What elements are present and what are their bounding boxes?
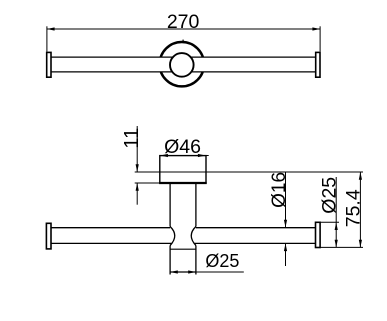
left end cap (front)	[46, 223, 51, 249]
rod bottom line (front) left segment	[51, 242, 172, 244]
svg-text:Ø25: Ø25	[319, 177, 341, 214]
right end cap (front)	[316, 222, 321, 247]
dimension D16 arrow up	[284, 243, 287, 251]
dimension D25 bottom arrow right	[188, 270, 196, 273]
extension line cap bottom (D25 / 75.4 bottom ref)	[320, 246, 363, 248]
mount flange outer circle (top view)	[160, 42, 204, 86]
dimension D25 right arrow down	[335, 240, 338, 248]
waist arc right	[191, 227, 196, 246]
bar (top view)	[49, 57, 318, 72]
post inner circle (top view)	[170, 53, 194, 77]
dimension 270 line	[47, 26, 320, 51]
dimension D16 lower line	[285, 243, 287, 266]
post (front) left edge	[169, 183, 171, 227]
extension line cap top (D25 right top ref)	[320, 221, 339, 223]
rod top line (front) right segment	[196, 227, 316, 229]
long extension line through flange (11 top ref / 75.4 top ref)	[135, 171, 363, 173]
svg-text:Ø46: Ø46	[164, 136, 201, 158]
wall flange (front)	[160, 156, 206, 183]
dimension 75.4 arrow up	[359, 172, 362, 180]
dimension 270 arrows	[47, 27, 55, 30]
stub bottom edge	[170, 271, 196, 273]
post (front) right edge	[195, 183, 197, 227]
dimension D25 bottom line	[170, 271, 244, 273]
dimension D25 right arrow up	[335, 222, 338, 230]
dimension 11 line lower	[136, 183, 138, 205]
left end cap (top view)	[47, 52, 51, 77]
dimension 11 arrow down	[136, 164, 139, 172]
rod top line (front) left segment	[51, 227, 170, 229]
stub left edge	[169, 246, 171, 275]
stub top inner line	[170, 248, 196, 250]
dimension D46 arrows	[160, 154, 168, 157]
svg-text:75.4: 75.4	[342, 189, 364, 227]
dimension 75.4 arrow down	[359, 240, 362, 248]
svg-text:11: 11	[121, 128, 143, 149]
dimension D46 line tail	[206, 155, 209, 157]
svg-text:Ø25: Ø25	[205, 251, 239, 271]
svg-text:Ø16: Ø16	[269, 172, 290, 208]
dimension 11 arrow up	[136, 183, 139, 191]
dimension D16 arrow down	[284, 220, 287, 228]
outer circle top quadrant tick	[182, 40, 184, 43]
dimension 75.4 line	[359, 172, 361, 247]
dimension 11 line upper	[136, 126, 138, 172]
flange bottom heavy edge	[159, 182, 207, 184]
waist arc left	[170, 227, 175, 246]
dimension D25 right line	[335, 177, 337, 247]
svg-text:270: 270	[167, 11, 200, 33]
dimension D16 upper line	[285, 172, 287, 227]
extension line at flange bottom (11 bottom ref)	[135, 182, 160, 184]
right end cap (top view)	[316, 52, 320, 77]
rod bottom line (front) right segment	[195, 242, 316, 244]
stub right edge	[195, 246, 197, 275]
dimension D25 bottom arrow left	[170, 270, 178, 273]
